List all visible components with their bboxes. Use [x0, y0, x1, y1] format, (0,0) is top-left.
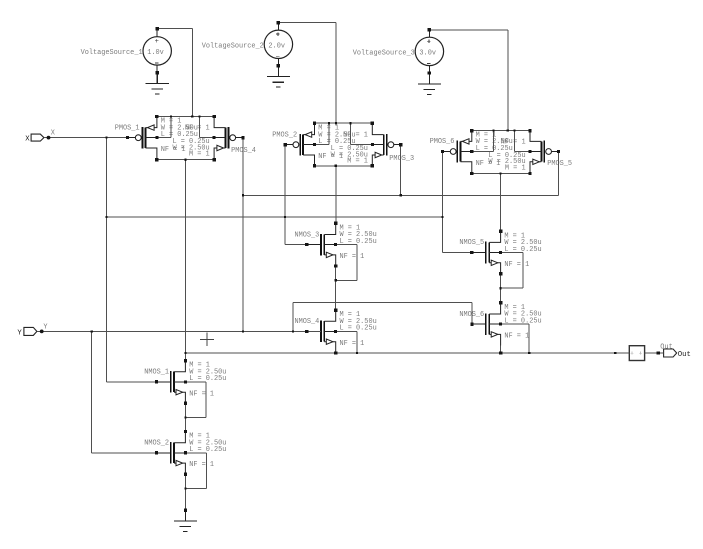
wire PMOS_5 bulk tie: [515, 131, 530, 152]
svg-text:M = 1: M = 1: [347, 158, 368, 166]
wire NMOS_3 bulk tie: [336, 245, 357, 281]
wire Y vertical drop: [91, 331, 93, 452]
node PMOS_1 gate pin: [126, 136, 129, 139]
svg-text:1.0v: 1.0v: [147, 49, 164, 57]
wire PMOS_2 bulk tie: [315, 123, 330, 145]
node NMOS_1 gate pin: [155, 380, 158, 383]
svg-text:NF = 1: NF = 1: [343, 132, 368, 140]
svg-text:NF = 1: NF = 1: [504, 333, 529, 341]
node PMOS_6 gate pin: [441, 150, 444, 153]
svg-text:NF = 1: NF = 1: [504, 261, 529, 269]
wire NMOS_2 bulk tie: [185, 453, 206, 489]
svg-text:NF = 1: NF = 1: [185, 125, 210, 133]
PMOS_4 value labels M/W/L/NF: [172, 125, 209, 159]
svg-text:Y: Y: [17, 329, 22, 337]
transistor PMOS_6: [442, 130, 471, 173]
node pair3 rail S pin: [470, 129, 473, 132]
output box U1: [629, 346, 644, 361]
node NMOS_2 drain pin: [184, 430, 187, 433]
node Y NMOS_6 gate tee: [292, 330, 294, 332]
wire output line: [185, 352, 629, 354]
svg-text:NMOS_2: NMOS_2: [144, 440, 169, 448]
transistor NMOS_5: [472, 231, 501, 274]
node pair3 bottom tap: [500, 172, 502, 174]
wire PMOS_5 gate drop: [557, 152, 559, 196]
crosshair cursor: [200, 332, 214, 346]
svg-text:NMOS_5: NMOS_5: [459, 239, 484, 247]
transistor NMOS_4: [307, 310, 336, 353]
wire PMOS_6 gate drop: [441, 152, 443, 253]
transistor PMOS_3: [372, 124, 401, 167]
wire PMOS_3 gate drop: [400, 145, 402, 196]
node NMOS_4 source pin: [334, 351, 337, 354]
node pair3 vdd tee: [507, 130, 509, 132]
node NMOS_4 drain pin: [334, 309, 337, 312]
node pair2 bulk2 tee: [328, 122, 330, 124]
svg-text:M = 1: M = 1: [189, 151, 210, 159]
svg-text:NMOS_3: NMOS_3: [294, 231, 319, 239]
svg-text:2.0v: 2.0v: [268, 42, 285, 50]
wire net B horizontal: [106, 216, 442, 218]
node NMOS_3 bulk pin: [334, 243, 337, 246]
wire NMOS_1 to NMOS_2: [184, 403, 186, 431]
node X wire start: [47, 136, 51, 140]
transistor PMOS_5: [530, 130, 559, 173]
svg-text:NF = 1: NF = 1: [189, 461, 214, 469]
voltage source VoltageSource_1 1.0v: [81, 29, 172, 72]
input port X: [25, 129, 55, 143]
node pair1 bottom tap: [184, 159, 186, 161]
svg-text:NF = 1: NF = 1: [340, 340, 365, 348]
wire VDD2 from VoltageSource_2: [278, 23, 336, 124]
wire VDD3 from VoltageSource_3: [429, 30, 507, 131]
ground: [146, 73, 169, 94]
node NMOS_2 source pin: [184, 473, 187, 476]
svg-text:NF = 1: NF = 1: [340, 253, 365, 261]
node X tee: [105, 137, 107, 139]
node NMOS_5 tie tee: [500, 287, 502, 289]
transistor NMOS_6: [472, 303, 501, 346]
node pair1 vdd tee: [191, 115, 193, 117]
node PMOS_5 gate pin: [557, 150, 560, 153]
svg-text:X: X: [25, 135, 30, 143]
node pair3 rail D pin: [528, 129, 531, 132]
node NMOS_1 bulk pin: [184, 380, 187, 383]
svg-text:PMOS_5: PMOS_5: [547, 160, 572, 168]
node VoltageSource_3 minus pin: [428, 71, 431, 74]
wire NMOS_6 source drop: [500, 346, 502, 354]
svg-text:3.0v: 3.0v: [419, 49, 436, 57]
wire PMOS_4 bulk tie: [200, 117, 215, 138]
node Out pin: [657, 351, 660, 354]
wire pair3 output drop: [500, 174, 502, 232]
svg-text:Out: Out: [678, 351, 691, 359]
svg-text:VoltageSource_2: VoltageSource_2: [202, 42, 264, 50]
wire X to NMOS_1 gate: [106, 381, 156, 383]
wire VDD1 from VoltageSource_1: [157, 29, 192, 117]
node pair2 bottom left pin: [313, 164, 316, 167]
node NMOS_5 gate pin: [470, 251, 473, 254]
node VoltageSource_2 plus pin: [277, 21, 280, 24]
PMOS_5 value labels M/W/L/NF: [488, 138, 525, 172]
node net A PMOS_3 tee: [400, 194, 402, 196]
transistor NMOS_3: [307, 223, 336, 266]
node PMOS_4 bulk pin: [213, 136, 216, 139]
node NMOS_5 bulk pin: [499, 251, 502, 254]
node VoltageSource_1 plus pin: [156, 27, 159, 30]
node NMOS_3 tie tee: [335, 279, 337, 281]
node VoltageSource_3 plus pin: [428, 28, 431, 31]
wire to NMOS_5 gate: [442, 252, 471, 254]
transistor PMOS_2: [285, 124, 314, 167]
PMOS_3 value labels M/W/L/NF: [331, 132, 368, 166]
wire PMOS_3 bulk tie: [350, 123, 372, 145]
node pair1 rail D pin: [212, 115, 215, 118]
PMOS_1 value labels M/W/L/NF: [161, 118, 198, 155]
node PMOS_1 bulk pin: [155, 136, 158, 139]
node pair2 vdd tee: [335, 122, 337, 124]
ground: [418, 73, 441, 94]
wire NMOS_2 to ground: [184, 474, 186, 510]
node NMOS_3 drain pin: [334, 222, 337, 225]
ground: [267, 66, 290, 87]
node NMOS_2 bulk pin: [184, 451, 187, 454]
voltage source VoltageSource_3 3.0v: [353, 30, 444, 73]
NMOS_3 value labels M/W/L/NF: [340, 224, 377, 261]
node NMOS_3 source pin: [334, 264, 337, 267]
node net B start tee: [105, 216, 107, 218]
node pair2 rail S pin: [313, 122, 316, 125]
wire NMOS_5 to NMOS_6: [500, 274, 502, 303]
node NMOS_4 bulk pin: [334, 330, 337, 333]
node ground pin: [184, 509, 187, 512]
svg-text:VoltageSource_1: VoltageSource_1: [81, 49, 143, 57]
svg-text:NF = 1: NF = 1: [189, 390, 214, 398]
wire PMOS_6 bulk tie: [472, 131, 494, 152]
svg-text:PMOS_3: PMOS_3: [389, 155, 414, 163]
node VoltageSource_1 minus pin: [156, 71, 159, 74]
node VoltageSource_2 minus pin: [277, 64, 280, 67]
node net B PMOS_2 junction: [284, 216, 286, 218]
wire Y to NMOS_2 gate: [92, 452, 157, 454]
node PMOS_6 bulk pin: [470, 150, 473, 153]
wire X vertical drop: [105, 138, 107, 382]
voltage source VoltageSource_2 2.0v: [202, 23, 293, 66]
node pair1 bottom right pin: [212, 158, 215, 161]
node pair3 bulk6 tee: [493, 130, 495, 132]
node PMOS_4 gate pin: [241, 136, 244, 139]
svg-text:NF = 1: NF = 1: [501, 138, 526, 146]
NMOS_5 value labels M/W/L/NF: [504, 232, 541, 269]
wire pair2 bottom rail: [315, 165, 373, 167]
node pair2 rail D pin: [371, 122, 374, 125]
node NMOS_2 tie tee: [184, 487, 186, 489]
NMOS_6 value labels M/W/L/NF: [504, 304, 541, 341]
node Y wire start: [40, 330, 44, 334]
transistor NMOS_2: [157, 432, 186, 475]
wire box to Out flag: [645, 352, 664, 354]
transistor NMOS_1: [157, 361, 186, 404]
ground: [174, 510, 197, 531]
node pair2 bulk3 tee: [349, 122, 351, 124]
node pair2 bottom tap: [335, 165, 337, 167]
node NMOS_3 gate pin: [305, 243, 308, 246]
input port Y: [17, 324, 48, 338]
wire pair1 bottom rail: [157, 159, 214, 161]
node net B end tee: [441, 216, 443, 218]
node net A start tee: [242, 194, 244, 196]
wire pair1 output drop: [184, 160, 186, 361]
PMOS_2 value labels M/W/L/NF: [318, 125, 355, 162]
node output line tee: [184, 352, 186, 354]
wire pair3 top rail: [472, 130, 530, 132]
node NMOS_5 drain pin: [499, 230, 502, 233]
node PMOS_2 bulk pin: [313, 143, 316, 146]
node NMOS_6 gate pin: [470, 323, 473, 326]
svg-text:Out: Out: [660, 343, 672, 351]
node pair1 bulk1 tee: [170, 115, 172, 117]
node Y tee: [91, 330, 93, 332]
NMOS_2 value labels M/W/L/NF: [189, 433, 226, 470]
svg-text:VoltageSource_3: VoltageSource_3: [353, 49, 415, 57]
wire to NMOS_3 gate: [285, 244, 307, 246]
node NMOS_1 source pin: [184, 402, 187, 405]
wire PMOS_4 gate drop: [242, 138, 244, 332]
svg-text:PMOS_4: PMOS_4: [231, 147, 256, 155]
node NMOS_5 source pin: [499, 272, 502, 275]
PMOS_6 value labels M/W/L/NF: [476, 131, 513, 168]
node PMOS_3 gate pin: [399, 143, 402, 146]
node Y PMOS_4 tee: [242, 330, 244, 332]
wire NMOS_1 bulk tie: [185, 382, 206, 418]
node NMOS_6 drain pin: [499, 301, 502, 304]
node PMOS_5 bulk pin: [529, 150, 532, 153]
output port Out: [660, 343, 691, 359]
node NMOS_6 source pin: [499, 351, 502, 354]
node pair3 bottom right pin: [528, 172, 531, 175]
wire X input line: [44, 137, 128, 139]
wire Y to NMOS_6 gate: [293, 303, 472, 332]
wire pair3 bottom rail: [472, 173, 530, 175]
wire pair2 top rail: [315, 122, 373, 124]
node pair3 bulk5 tee: [514, 130, 516, 132]
node NMOS_4 tie tee: [356, 352, 358, 354]
svg-text:PMOS_2: PMOS_2: [272, 131, 297, 139]
node output wire joint: [614, 352, 616, 354]
node NMOS_4 gate pin: [305, 330, 308, 333]
node NMOS_6 tie tee: [528, 352, 530, 354]
NMOS_1 value labels M/W/L/NF: [189, 362, 226, 399]
node NMOS_6 bulk pin: [499, 323, 502, 326]
node pair3 bottom left pin: [470, 172, 473, 175]
svg-text:PMOS_6: PMOS_6: [430, 138, 455, 146]
wire NMOS_4 bulk tie: [336, 331, 357, 353]
node pair2 bottom right pin: [371, 164, 374, 167]
wire NMOS_6 bulk tie: [501, 324, 530, 353]
node NMOS_1 tie tee: [184, 417, 186, 419]
node NMOS_1 drain pin: [184, 359, 187, 362]
transistor PMOS_1: [128, 117, 157, 160]
node PMOS_2 gate pin: [284, 143, 287, 146]
node pair1 bottom left pin: [155, 158, 158, 161]
NMOS_4 value labels M/W/L/NF: [340, 311, 377, 348]
node PMOS_3 bulk pin: [371, 143, 374, 146]
svg-text:PMOS_1: PMOS_1: [115, 124, 140, 132]
wire Y input line: [37, 330, 321, 332]
wire pair2 output drop: [335, 166, 337, 224]
wire pair1 top rail: [157, 116, 214, 118]
node NMOS_2 gate pin: [155, 451, 158, 454]
wire NMOS_3 to NMOS_4: [335, 266, 337, 310]
node pair1 rail S pin: [155, 115, 158, 118]
wire NMOS_5 bulk tie: [501, 253, 523, 289]
svg-text:NMOS_1: NMOS_1: [144, 369, 169, 377]
node pair1 bulk4 tee: [198, 115, 200, 117]
svg-text:NMOS_4: NMOS_4: [294, 318, 319, 326]
transistor PMOS_4: [214, 117, 243, 160]
wire net A horizontal: [243, 194, 558, 196]
wire PMOS_2 gate drop: [284, 145, 286, 245]
wire PMOS_1 bulk tie: [157, 117, 171, 138]
svg-text:M = 1: M = 1: [505, 164, 526, 172]
